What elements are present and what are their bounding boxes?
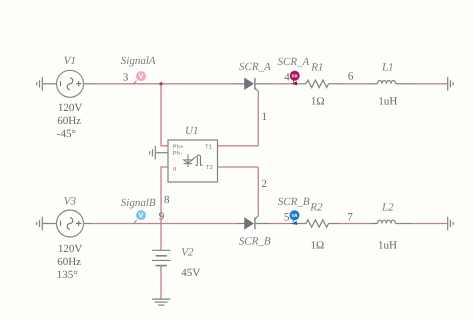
svg-text:1: 1 [262, 111, 268, 123]
svg-text:U1: U1 [185, 125, 198, 137]
svg-text:T1: T1 [205, 144, 213, 151]
svg-text:L2: L2 [381, 201, 394, 213]
svg-text:α: α [173, 165, 177, 172]
svg-text:45V: 45V [181, 267, 200, 279]
svg-text:1Ω: 1Ω [311, 239, 325, 251]
svg-text:V2: V2 [181, 247, 194, 259]
svg-text:R2: R2 [309, 201, 323, 213]
svg-text:135°: 135° [57, 269, 78, 281]
svg-text:6: 6 [348, 70, 354, 82]
svg-text:Ph-: Ph- [173, 150, 184, 157]
svg-text:SCR_A: SCR_A [239, 61, 271, 73]
svg-text:V3: V3 [64, 195, 77, 207]
svg-text:SCR_B: SCR_B [278, 196, 310, 208]
svg-text:60Hz: 60Hz [57, 115, 81, 127]
svg-text:1Ω: 1Ω [311, 95, 325, 107]
svg-text:8: 8 [164, 194, 170, 206]
svg-text:1uH: 1uH [378, 95, 397, 107]
svg-text:SCR_A: SCR_A [278, 56, 310, 68]
svg-text:120V: 120V [58, 102, 83, 114]
svg-text:L1: L1 [381, 61, 394, 73]
svg-text:SignalA: SignalA [121, 55, 156, 67]
svg-text:-45°: -45° [57, 128, 76, 140]
svg-text:V: V [139, 74, 144, 81]
svg-text:5: 5 [284, 212, 290, 224]
svg-text:7: 7 [347, 211, 353, 223]
svg-text:R1: R1 [310, 61, 323, 73]
svg-text:3: 3 [123, 72, 129, 84]
svg-text:SignalB: SignalB [121, 197, 156, 209]
svg-text:VA: VA [291, 213, 298, 219]
svg-text:9: 9 [159, 211, 165, 223]
svg-text:T2: T2 [206, 164, 214, 171]
svg-text:SCR_B: SCR_B [239, 236, 271, 248]
svg-text:1uH: 1uH [378, 239, 397, 251]
svg-text:V1: V1 [64, 55, 76, 67]
svg-text:60Hz: 60Hz [57, 256, 81, 268]
svg-text:VA: VA [292, 74, 299, 80]
svg-text:120V: 120V [58, 243, 83, 255]
svg-text:2: 2 [261, 178, 267, 190]
svg-text:4: 4 [284, 72, 290, 84]
svg-text:V: V [139, 213, 144, 220]
